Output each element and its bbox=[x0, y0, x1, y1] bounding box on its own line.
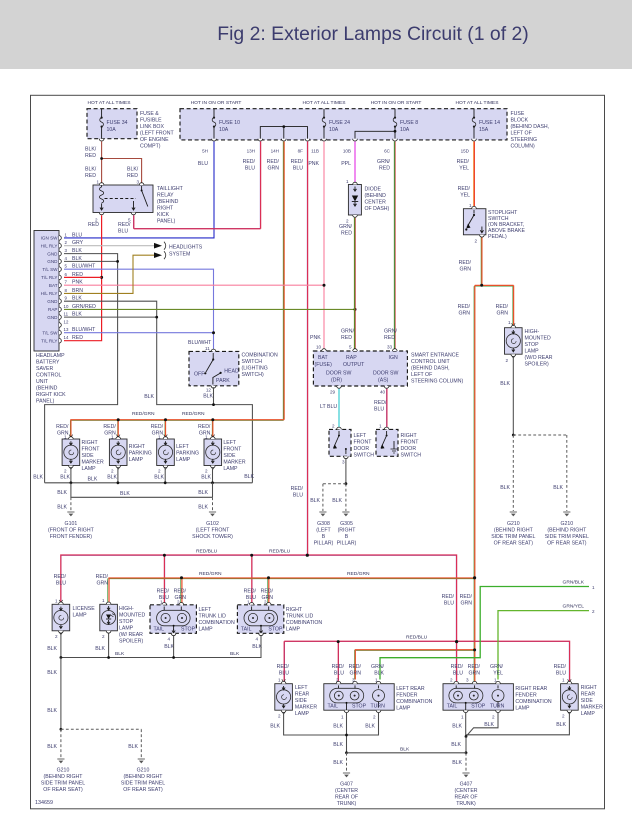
BLK bus 2 (ground link) bbox=[71, 483, 213, 498]
svg-text:RED/BLU: RED/BLU bbox=[406, 635, 428, 641]
wire BLK/RED fuse34 to relay bbox=[102, 141, 142, 185]
svg-text:MARKER: MARKER bbox=[82, 460, 104, 466]
svg-text:2: 2 bbox=[474, 239, 477, 244]
svg-text:HOT IN ON OR START: HOT IN ON OR START bbox=[191, 100, 242, 106]
svg-text:DOOR: DOOR bbox=[354, 446, 370, 452]
svg-text:RED/: RED/ bbox=[103, 424, 116, 430]
lamp: right rear side marker bbox=[561, 679, 579, 714]
svg-text:6C: 6C bbox=[384, 149, 391, 154]
svg-text:2: 2 bbox=[158, 469, 161, 474]
svg-text:KICK: KICK bbox=[157, 212, 170, 218]
svg-text:IGN SW: IGN SW bbox=[41, 236, 59, 241]
svg-text:33: 33 bbox=[387, 345, 393, 350]
svg-text:DOOR: DOOR bbox=[401, 446, 417, 452]
svg-text:TURN: TURN bbox=[371, 704, 386, 710]
svg-text:TAIL: TAIL bbox=[154, 627, 165, 633]
svg-text:BLU: BLU bbox=[72, 232, 82, 238]
pin8 BRN bbox=[64, 255, 154, 293]
svg-text:15A: 15A bbox=[479, 127, 489, 133]
svg-text:G210: G210 bbox=[560, 521, 573, 527]
svg-text:RIGHT: RIGHT bbox=[82, 440, 99, 446]
svg-text:1: 1 bbox=[592, 585, 595, 590]
svg-text:RED/: RED/ bbox=[267, 159, 280, 165]
svg-text:10A: 10A bbox=[400, 127, 410, 133]
svg-text:HEADLIGHTS: HEADLIGHTS bbox=[169, 245, 203, 251]
svg-text:MARKER: MARKER bbox=[581, 705, 603, 711]
svg-text:1: 1 bbox=[346, 179, 349, 184]
svg-text:LAMP: LAMP bbox=[525, 349, 540, 355]
svg-text:RIGHT REAR: RIGHT REAR bbox=[515, 686, 547, 692]
svg-text:RED: RED bbox=[72, 335, 83, 341]
svg-text:T/L SW: T/L SW bbox=[42, 267, 58, 272]
svg-text:14: 14 bbox=[64, 335, 69, 340]
RED/GRN front bus bbox=[70, 421, 283, 439]
svg-text:(LEFT: (LEFT bbox=[316, 528, 331, 534]
svg-text:RED/: RED/ bbox=[198, 424, 211, 430]
svg-text:BAT: BAT bbox=[49, 283, 58, 288]
svg-text:RED/BLU: RED/BLU bbox=[269, 549, 291, 555]
svg-text:G210: G210 bbox=[57, 768, 70, 774]
svg-text:CONTROL: CONTROL bbox=[36, 373, 61, 379]
pin13 BLU/WHT bbox=[64, 332, 214, 334]
svg-text:GND: GND bbox=[47, 259, 58, 264]
svg-text:COMBINATION: COMBINATION bbox=[396, 699, 432, 705]
svg-text:RED/GRN: RED/GRN bbox=[182, 411, 205, 417]
svg-text:SHOCK TOWER): SHOCK TOWER) bbox=[192, 534, 233, 540]
BLK bus under mid rear lamps bbox=[61, 634, 261, 658]
svg-text:RED/BLU: RED/BLU bbox=[196, 549, 218, 555]
svg-text:RIGHT: RIGHT bbox=[286, 607, 303, 613]
svg-text:GRN: GRN bbox=[57, 431, 69, 437]
ground G308 bbox=[319, 512, 326, 516]
svg-text:FUSE 24: FUSE 24 bbox=[329, 120, 350, 126]
svg-text:40: 40 bbox=[380, 390, 386, 395]
svg-text:LAMP: LAMP bbox=[295, 711, 310, 717]
svg-text:BLU: BLU bbox=[198, 161, 208, 167]
svg-text:RIGHT: RIGHT bbox=[157, 206, 174, 212]
ground G305 bbox=[342, 512, 349, 516]
lamp: left rear side marker bbox=[275, 679, 293, 714]
svg-text:BLK: BLK bbox=[553, 485, 563, 491]
svg-text:GRN/BLK: GRN/BLK bbox=[563, 580, 585, 586]
svg-text:RED/: RED/ bbox=[458, 186, 471, 192]
svg-text:(LEFT FRONT: (LEFT FRONT bbox=[196, 528, 230, 534]
svg-text:RED/: RED/ bbox=[349, 664, 362, 670]
svg-text:G210: G210 bbox=[507, 521, 520, 527]
svg-text:PARK: PARK bbox=[216, 378, 230, 384]
svg-text:BLU: BLU bbox=[118, 229, 128, 235]
RED wire relay pin2 down to pin14 bbox=[64, 215, 102, 341]
svg-text:OF REAR SEAT): OF REAR SEAT) bbox=[547, 541, 587, 547]
svg-text:G407: G407 bbox=[340, 782, 353, 788]
svg-text:8F: 8F bbox=[298, 149, 304, 154]
svg-text:FRONT: FRONT bbox=[354, 440, 373, 446]
svg-text:BLK: BLK bbox=[154, 475, 164, 481]
svg-text:1: 1 bbox=[379, 424, 382, 429]
svg-text:BLK: BLK bbox=[332, 498, 342, 504]
svg-text:STOP: STOP bbox=[471, 704, 486, 710]
lamp: license bbox=[52, 600, 70, 635]
svg-text:TRUNK LID: TRUNK LID bbox=[199, 614, 227, 620]
svg-text:GRN/YEL: GRN/YEL bbox=[563, 604, 585, 610]
svg-text:GRN: GRN bbox=[460, 601, 472, 607]
svg-text:RIGHT: RIGHT bbox=[129, 444, 146, 450]
svg-text:FUSIBLE: FUSIBLE bbox=[140, 118, 162, 124]
svg-text:10A: 10A bbox=[329, 127, 339, 133]
svg-text:PARKING: PARKING bbox=[129, 451, 152, 457]
svg-text:SWITCH: SWITCH bbox=[401, 453, 422, 459]
svg-text:(CENTER: (CENTER bbox=[454, 788, 477, 794]
svg-text:RAP: RAP bbox=[48, 307, 57, 312]
svg-text:5H: 5H bbox=[202, 149, 208, 154]
svg-text:BLK: BLK bbox=[452, 724, 462, 730]
LT BLU wire bbox=[338, 389, 340, 430]
svg-text:OF REAR SEAT): OF REAR SEAT) bbox=[494, 541, 534, 547]
svg-text:(LEFT FRONT: (LEFT FRONT bbox=[140, 131, 174, 137]
svg-text:STEERING: STEERING bbox=[511, 137, 538, 143]
svg-text:OF REAR SEAT): OF REAR SEAT) bbox=[123, 787, 163, 793]
svg-text:BLK: BLK bbox=[57, 490, 67, 496]
svg-text:SMART ENTRANCE: SMART ENTRANCE bbox=[411, 353, 459, 359]
wire 10B PPL to diode bbox=[354, 141, 356, 182]
svg-text:LAMP: LAMP bbox=[176, 457, 191, 463]
svg-text:RED/: RED/ bbox=[174, 589, 187, 595]
svg-text:GND: GND bbox=[47, 315, 58, 320]
svg-text:SWITCH: SWITCH bbox=[354, 453, 375, 459]
svg-text:TRUNK): TRUNK) bbox=[456, 801, 476, 807]
svg-text:4: 4 bbox=[255, 637, 258, 642]
svg-text:TAIL: TAIL bbox=[447, 704, 458, 710]
svg-text:SAVER: SAVER bbox=[36, 366, 53, 372]
svg-text:HIGH-: HIGH- bbox=[525, 329, 540, 335]
svg-text:2: 2 bbox=[505, 358, 508, 363]
svg-text:OFF: OFF bbox=[194, 372, 204, 378]
ground G210 (rear left #1) bbox=[57, 759, 64, 763]
svg-text:1: 1 bbox=[96, 180, 99, 185]
svg-text:YEL: YEL bbox=[459, 166, 469, 172]
svg-text:RED/: RED/ bbox=[332, 664, 345, 670]
svg-text:LAMP: LAMP bbox=[82, 466, 97, 472]
svg-text:FENDER: FENDER bbox=[515, 693, 537, 699]
pin4 BLK bbox=[64, 260, 118, 262]
svg-text:RED/: RED/ bbox=[496, 304, 509, 310]
svg-text:BLK: BLK bbox=[47, 744, 57, 750]
RED/GRN net from stoplight bbox=[355, 238, 513, 683]
svg-text:3: 3 bbox=[342, 460, 345, 465]
svg-text:HOT IN ON OR START: HOT IN ON OR START bbox=[371, 100, 422, 106]
svg-text:SWITCH: SWITCH bbox=[242, 359, 263, 365]
svg-text:G407: G407 bbox=[460, 782, 473, 788]
svg-text:RED: RED bbox=[85, 173, 96, 179]
ground G102 bbox=[209, 512, 216, 516]
svg-text:HEADLAMP: HEADLAMP bbox=[36, 353, 65, 359]
svg-text:BAT: BAT bbox=[318, 355, 329, 361]
svg-text:TAIL: TAIL bbox=[328, 704, 339, 710]
svg-text:SIDE TRIM PANEL: SIDE TRIM PANEL bbox=[545, 534, 589, 540]
svg-text:TURN: TURN bbox=[490, 704, 505, 710]
svg-text:PILLAR): PILLAR) bbox=[314, 541, 334, 547]
ground drops bbox=[70, 497, 72, 511]
fuse 10 bbox=[212, 109, 240, 139]
svg-text:RAP: RAP bbox=[346, 355, 357, 361]
svg-text:BLK: BLK bbox=[203, 394, 213, 400]
left long BLK drop to rear G210 pair bbox=[60, 658, 62, 730]
svg-text:LT BLU: LT BLU bbox=[320, 404, 337, 410]
svg-text:2: 2 bbox=[64, 469, 67, 474]
svg-text:MOUNTED: MOUNTED bbox=[525, 336, 551, 342]
svg-text:GRN/: GRN/ bbox=[371, 664, 385, 670]
svg-text:RED/: RED/ bbox=[468, 664, 481, 670]
svg-text:BLU: BLU bbox=[293, 166, 303, 172]
svg-text:LEFT: LEFT bbox=[354, 433, 368, 439]
ground G210 (rear left #2) bbox=[138, 759, 145, 763]
svg-text:RED/: RED/ bbox=[244, 589, 257, 595]
svg-text:LAMP: LAMP bbox=[199, 627, 214, 633]
svg-text:SIDE: SIDE bbox=[82, 453, 95, 459]
svg-text:RED/: RED/ bbox=[151, 424, 164, 430]
svg-text:(BEHIND: (BEHIND bbox=[36, 386, 58, 392]
svg-text:RED: RED bbox=[85, 153, 96, 159]
svg-text:H/L RLY: H/L RLY bbox=[41, 243, 58, 248]
title bar bbox=[0, 0, 632, 69]
svg-text:LEFT: LEFT bbox=[295, 685, 309, 691]
svg-text:BATTERY: BATTERY bbox=[36, 360, 60, 366]
svg-text:T/L RLY: T/L RLY bbox=[41, 275, 57, 280]
svg-text:RED/: RED/ bbox=[442, 594, 455, 600]
pin5 BLU/WHT bbox=[64, 269, 214, 351]
svg-text:2: 2 bbox=[450, 678, 453, 683]
svg-text:GRN/: GRN/ bbox=[341, 329, 355, 335]
svg-text:DOOR SW: DOOR SW bbox=[326, 371, 351, 377]
svg-text:1: 1 bbox=[341, 715, 344, 720]
svg-text:IGN: IGN bbox=[389, 355, 398, 361]
svg-text:11: 11 bbox=[205, 346, 210, 351]
svg-text:29: 29 bbox=[330, 390, 336, 395]
bottom pin bumps of fuse boxes bbox=[99, 139, 104, 141]
svg-text:2: 2 bbox=[332, 424, 335, 429]
svg-text:OF REAR SEAT): OF REAR SEAT) bbox=[43, 787, 83, 793]
svg-text:FUSE 10: FUSE 10 bbox=[219, 120, 240, 126]
svg-text:5: 5 bbox=[349, 345, 352, 350]
svg-text:1: 1 bbox=[469, 203, 472, 208]
svg-text:OF DASH): OF DASH) bbox=[365, 206, 390, 212]
fuse 24 bbox=[322, 109, 350, 139]
svg-text:RED/: RED/ bbox=[96, 574, 109, 580]
svg-text:BLK: BLK bbox=[164, 644, 174, 650]
wire 11B PNK down to SECU pin10 bbox=[323, 141, 325, 351]
svg-text:RED/: RED/ bbox=[458, 304, 471, 310]
svg-text:BLK: BLK bbox=[333, 724, 343, 730]
svg-text:(BEHIND: (BEHIND bbox=[365, 193, 387, 199]
svg-text:10A: 10A bbox=[107, 127, 117, 133]
svg-text:(FRONT OF RIGHT: (FRONT OF RIGHT bbox=[48, 528, 95, 534]
svg-text:GRN: GRN bbox=[96, 581, 108, 587]
svg-text:G305: G305 bbox=[340, 521, 353, 527]
svg-text:BLK: BLK bbox=[244, 474, 254, 480]
svg-text:LEFT: LEFT bbox=[176, 444, 190, 450]
pin3 BLK bbox=[45, 254, 118, 483]
svg-text:LINK BOX: LINK BOX bbox=[140, 124, 164, 130]
svg-text:REAR: REAR bbox=[581, 692, 596, 698]
svg-text:2: 2 bbox=[562, 714, 565, 719]
svg-text:FUSE: FUSE bbox=[511, 111, 525, 117]
GRN/RED from diode to SECU pin5 bbox=[354, 218, 356, 351]
svg-text:B: B bbox=[345, 534, 349, 540]
svg-text:RIGHT: RIGHT bbox=[581, 685, 598, 691]
wire 15D RED/YEL to stoplight sw bbox=[473, 141, 475, 206]
svg-text:BLOCK: BLOCK bbox=[511, 118, 529, 124]
svg-text:RED: RED bbox=[72, 272, 83, 278]
svg-text:BLK: BLK bbox=[60, 475, 70, 481]
svg-text:T/L SW: T/L SW bbox=[42, 330, 58, 335]
svg-text:PANEL): PANEL) bbox=[157, 219, 176, 225]
svg-text:10A: 10A bbox=[219, 127, 229, 133]
svg-text:GRN: GRN bbox=[496, 311, 508, 317]
svg-text:SIDE: SIDE bbox=[295, 698, 308, 704]
svg-text:BLK: BLK bbox=[451, 742, 461, 748]
svg-text:2: 2 bbox=[111, 469, 114, 474]
svg-text:(BEHIND RIGHT: (BEHIND RIGHT bbox=[124, 774, 164, 780]
svg-text:GRN: GRN bbox=[459, 267, 471, 273]
svg-text:RED/: RED/ bbox=[291, 159, 304, 165]
svg-text:BLK: BLK bbox=[400, 747, 410, 753]
svg-text:LAMP: LAMP bbox=[581, 711, 596, 717]
RED/BLU wire to right door sw bbox=[386, 389, 388, 430]
svg-text:RED/: RED/ bbox=[277, 664, 290, 670]
svg-text:BLU: BLU bbox=[444, 601, 454, 607]
svg-text:SIDE: SIDE bbox=[223, 453, 236, 459]
svg-text:TRUNK): TRUNK) bbox=[337, 801, 357, 807]
BLK from comb sw pin 12 bbox=[213, 387, 215, 404]
svg-text:MOUNTED: MOUNTED bbox=[119, 613, 145, 619]
svg-text:BLK: BLK bbox=[201, 475, 211, 481]
svg-text:2: 2 bbox=[205, 469, 208, 474]
svg-text:BLK: BLK bbox=[47, 708, 57, 714]
svg-text:STOP: STOP bbox=[525, 342, 540, 348]
BLK from left door switch to G308/G305 bbox=[345, 459, 347, 484]
svg-text:BLK: BLK bbox=[47, 670, 57, 676]
svg-text:PANEL): PANEL) bbox=[36, 399, 55, 405]
svg-text:RED/GRN: RED/GRN bbox=[347, 571, 370, 577]
svg-text:FRONT: FRONT bbox=[82, 447, 101, 453]
svg-text:13H: 13H bbox=[247, 149, 255, 154]
svg-text:PNK: PNK bbox=[308, 161, 319, 167]
svg-text:TRUNK LID: TRUNK LID bbox=[286, 614, 314, 620]
svg-text:SIDE TRIM PANEL: SIDE TRIM PANEL bbox=[491, 534, 535, 540]
svg-text:MARKER: MARKER bbox=[295, 705, 317, 711]
fuse 8 bbox=[393, 109, 418, 139]
svg-text:RED: RED bbox=[341, 335, 352, 341]
svg-text:BLK: BLK bbox=[120, 491, 130, 497]
svg-text:RED/: RED/ bbox=[459, 260, 472, 266]
svg-text:STEERING COLUMN): STEERING COLUMN) bbox=[411, 379, 463, 385]
svg-text:14H: 14H bbox=[271, 149, 279, 154]
svg-text:12: 12 bbox=[206, 388, 212, 393]
svg-text:PPL: PPL bbox=[341, 161, 351, 167]
svg-text:LAMP: LAMP bbox=[73, 613, 88, 619]
svg-text:2: 2 bbox=[346, 219, 349, 224]
svg-text:OF ENGINE: OF ENGINE bbox=[140, 137, 169, 143]
svg-text:SIDE: SIDE bbox=[581, 698, 594, 704]
svg-text:SPOILER): SPOILER) bbox=[525, 362, 549, 368]
svg-text:COMBINATION: COMBINATION bbox=[515, 699, 551, 705]
svg-text:BLK: BLK bbox=[47, 646, 57, 652]
svg-text:15D: 15D bbox=[461, 149, 470, 154]
svg-text:YEL: YEL bbox=[460, 193, 470, 199]
svg-text:RELAY: RELAY bbox=[157, 193, 174, 199]
svg-text:LEFT REAR: LEFT REAR bbox=[396, 686, 425, 692]
svg-text:REAR OF: REAR OF bbox=[335, 795, 358, 801]
fuse 8 internal branch to 10B bbox=[355, 131, 395, 138]
svg-text:GND: GND bbox=[47, 299, 58, 304]
svg-text:BLK: BLK bbox=[365, 724, 375, 730]
svg-text:11: 11 bbox=[64, 312, 69, 317]
svg-text:FENDER: FENDER bbox=[396, 693, 418, 699]
svg-text:HEAD: HEAD bbox=[224, 369, 239, 375]
svg-text:RED/: RED/ bbox=[118, 222, 131, 228]
pin10 GRN/RED bbox=[64, 308, 355, 310]
svg-text:GRN: GRN bbox=[349, 671, 361, 677]
svg-text:GRN/: GRN/ bbox=[384, 329, 398, 335]
wire 5H BLU bbox=[64, 141, 214, 238]
RED pin6 spur bbox=[64, 276, 102, 278]
svg-text:STOP: STOP bbox=[181, 627, 196, 633]
svg-text:BLU: BLU bbox=[453, 671, 463, 677]
svg-text:2: 2 bbox=[278, 714, 281, 719]
svg-text:BLK: BLK bbox=[95, 646, 105, 652]
lamp: left front side marker bbox=[204, 435, 222, 470]
wire 13H RED/BLU : relay pin5 bbox=[133, 141, 260, 228]
svg-text:H/L RLY: H/L RLY bbox=[41, 291, 58, 296]
svg-text:GRN: GRN bbox=[468, 671, 480, 677]
svg-text:FRONT: FRONT bbox=[223, 447, 242, 453]
svg-text:PEDAL): PEDAL) bbox=[488, 234, 507, 240]
svg-text:SWITCH): SWITCH) bbox=[242, 372, 264, 378]
svg-text:HIGH-: HIGH- bbox=[119, 606, 134, 612]
svg-text:BLK: BLK bbox=[57, 505, 67, 511]
svg-text:1: 1 bbox=[55, 599, 58, 604]
svg-text:BLU: BLU bbox=[374, 407, 384, 413]
svg-text:(LIGHTING: (LIGHTING bbox=[242, 366, 268, 372]
svg-text:SPOILER): SPOILER) bbox=[119, 639, 143, 645]
svg-text:RED: RED bbox=[341, 231, 352, 237]
svg-text:UNIT: UNIT bbox=[36, 379, 49, 385]
svg-text:BLK/: BLK/ bbox=[85, 167, 97, 173]
svg-text:DOOR SW: DOOR SW bbox=[373, 371, 398, 377]
svg-text:BLU: BLU bbox=[56, 581, 66, 587]
wire 8F RED/BLU long down to rear bus bbox=[306, 141, 308, 555]
svg-text:FUSE 14: FUSE 14 bbox=[479, 120, 500, 126]
svg-text:RIGHT KICK: RIGHT KICK bbox=[36, 392, 66, 398]
svg-text:BLK: BLK bbox=[556, 722, 566, 728]
wire 14H RED/GRN down to front lamp bus bbox=[282, 141, 284, 419]
svg-text:11B: 11B bbox=[311, 149, 319, 154]
svg-text:RED: RED bbox=[384, 335, 395, 341]
svg-text:COMBINATION: COMBINATION bbox=[286, 620, 322, 626]
svg-text:2: 2 bbox=[102, 634, 105, 639]
svg-text:REAR OF: REAR OF bbox=[454, 795, 477, 801]
svg-text:BLK: BLK bbox=[484, 722, 494, 728]
svg-text:134659: 134659 bbox=[35, 800, 53, 806]
svg-text:STOP: STOP bbox=[352, 704, 367, 710]
svg-text:RED: RED bbox=[88, 222, 99, 228]
svg-text:2: 2 bbox=[373, 715, 376, 720]
svg-text:LAMP: LAMP bbox=[515, 706, 530, 712]
svg-text:2: 2 bbox=[55, 634, 58, 639]
svg-text:(BEHIND DASH,: (BEHIND DASH, bbox=[511, 124, 550, 130]
svg-text:RED/: RED/ bbox=[554, 664, 567, 670]
svg-text:CENTER: CENTER bbox=[365, 200, 387, 206]
